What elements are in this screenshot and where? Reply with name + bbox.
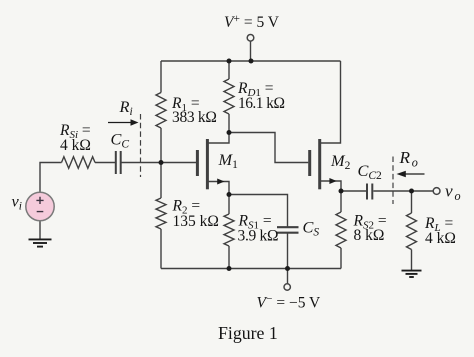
ground (RL): [402, 271, 422, 277]
svg-text:Ro: Ro: [399, 148, 418, 169]
arrow Ro: [397, 171, 425, 177]
svg-text:CS: CS: [303, 218, 320, 239]
wire RD1 to drain node: [228, 114, 230, 133]
svg-text:CC: CC: [111, 130, 130, 151]
wire vi to RSi: [40, 163, 62, 193]
resistor RD1: [224, 79, 234, 114]
ground (vi source): [29, 239, 52, 246]
wire M2 source lead: [321, 181, 341, 191]
wire M2 drain lead: [321, 61, 341, 143]
transistor M1 gate bar: [196, 150, 199, 176]
svg-text:M2: M2: [330, 151, 351, 172]
arrow Ri: [108, 119, 139, 125]
wire V+ stem: [250, 41, 252, 61]
wire top rail: [161, 60, 341, 62]
svg-text:vo: vo: [445, 182, 461, 203]
voltage source vi: [26, 192, 54, 220]
wire source node to CC2: [341, 190, 366, 192]
resistor R2: [156, 198, 166, 229]
svg-text:4 kΩ: 4 kΩ: [60, 137, 91, 154]
wire rail to RD1: [228, 61, 230, 79]
svg-text:3.9 kΩ: 3.9 kΩ: [238, 228, 279, 245]
svg-text:CC2: CC2: [358, 161, 383, 182]
transistor M1 channel bar: [206, 139, 209, 189]
wire R2 to bottom rail: [160, 229, 162, 269]
wire source node to CS: [229, 195, 288, 228]
wire RS2 to bottom rail: [340, 248, 342, 269]
svg-text:Ri: Ri: [119, 97, 133, 118]
wire drain node to M2 gate: [229, 133, 308, 163]
svg-text:V− = −5 V: V− = −5 V: [257, 294, 322, 312]
capacitor CC2: [367, 184, 372, 200]
wire R1 to input node: [160, 128, 162, 198]
wire left branch top (rail to R1): [160, 61, 162, 93]
wire V- stem: [287, 269, 289, 284]
node dot M1 source: [227, 192, 232, 197]
capacitor CC: [116, 151, 121, 174]
wire RS1 to bottom rail: [228, 246, 230, 269]
node dot output: [409, 189, 414, 194]
transistor M2 channel bar: [318, 139, 321, 189]
wire M1 drain lead: [208, 133, 229, 144]
dashed line Ro reference: [392, 157, 394, 205]
wire CC2 to output terminal: [373, 190, 433, 192]
wire M2 source node to RS2: [340, 191, 342, 212]
node dot rail-V+: [249, 59, 254, 64]
resistor R1: [156, 93, 166, 129]
svg-text:135 kΩ: 135 kΩ: [173, 213, 219, 230]
node dot input junction: [159, 160, 164, 165]
transistor M2 gate bar: [308, 150, 311, 176]
wire RSi to CC: [95, 162, 116, 164]
wire M1 source node to RS1: [228, 195, 230, 215]
svg-text:383 kΩ: 383 kΩ: [172, 109, 217, 126]
svg-text:vi: vi: [12, 192, 22, 213]
wire CS to bottom rail: [287, 233, 289, 269]
resistor RL: [407, 213, 417, 249]
node dot CS bottom / V-: [285, 266, 290, 271]
wire output node to RL: [411, 191, 413, 213]
svg-text:Figure 1: Figure 1: [218, 323, 278, 343]
wire CC to M1 gate: [121, 162, 196, 164]
capacitor CS: [277, 227, 299, 233]
resistor RS1: [224, 214, 234, 246]
node dot M1 drain: [227, 130, 232, 135]
wire M1 source lead: [208, 182, 229, 195]
svg-text:16.1 kΩ: 16.1 kΩ: [238, 95, 284, 112]
node dot RS1 bottom: [227, 266, 232, 271]
terminal vo: [433, 188, 440, 195]
terminal V+: [247, 35, 254, 42]
wire vi to ground: [39, 221, 41, 239]
dashed line Ri reference: [140, 114, 142, 177]
M2 source arrow: [329, 178, 336, 184]
wire bottom rail: [161, 268, 341, 270]
node dot M2 source: [339, 189, 344, 194]
resistor RSi: [62, 157, 96, 169]
resistor RS2: [336, 212, 346, 248]
node dot rail-RD1: [227, 59, 232, 64]
M1 source arrow: [217, 179, 224, 185]
svg-text:8 kΩ: 8 kΩ: [354, 227, 385, 244]
svg-text:V+ = 5 V: V+ = 5 V: [224, 13, 280, 31]
svg-text:M1: M1: [218, 150, 239, 171]
terminal V-: [284, 284, 290, 290]
svg-text:4 kΩ: 4 kΩ: [425, 230, 456, 247]
wire RL to ground: [411, 250, 413, 271]
